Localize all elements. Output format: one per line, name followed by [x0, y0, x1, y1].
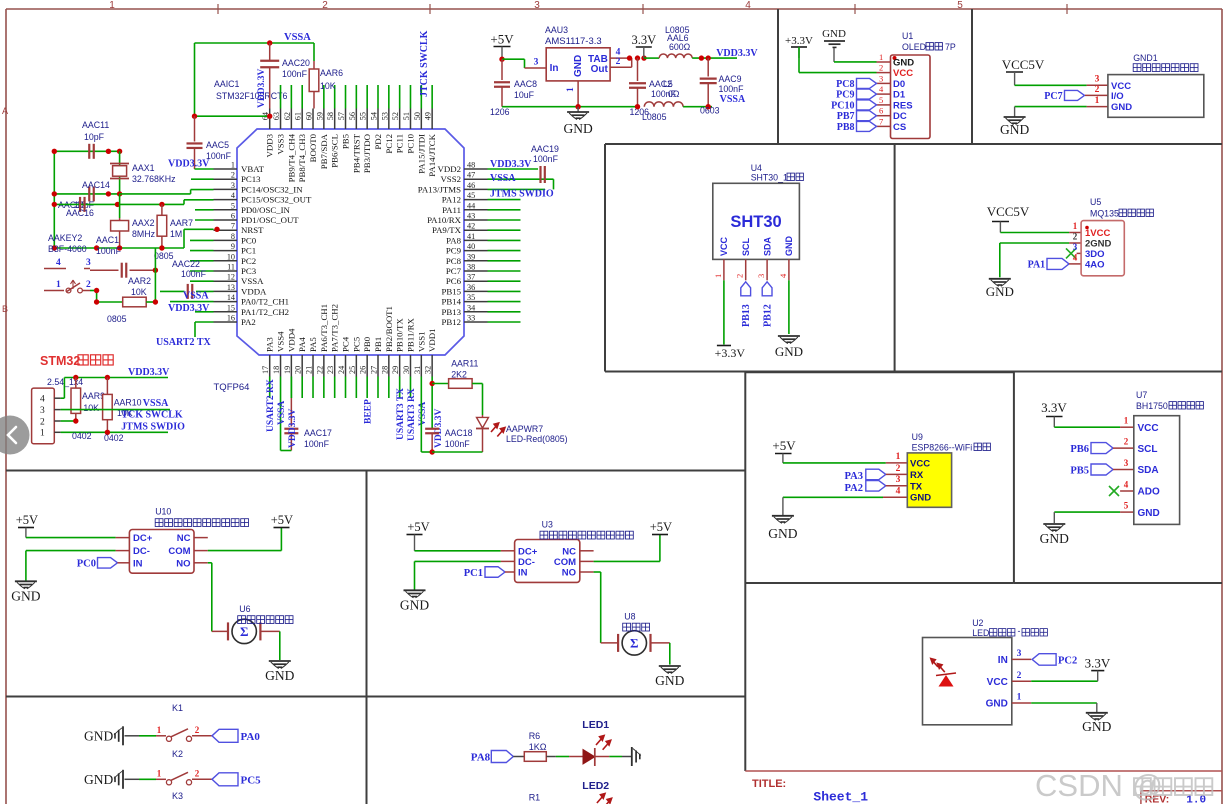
svg-text:59: 59 [315, 112, 324, 120]
svg-text:PC9: PC9 [836, 90, 854, 101]
svg-text:VCC5V: VCC5V [1002, 57, 1045, 72]
wire right pin [488, 229, 521, 231]
capacitor AAC18 100nF [425, 428, 439, 430]
svg-text:35: 35 [467, 293, 475, 302]
svg-text:VDD1: VDD1 [427, 329, 437, 352]
node junctions after coil [699, 55, 704, 60]
wire pin46 JTMS [488, 188, 546, 190]
wire top pin stub [420, 85, 422, 109]
pin 25 PC5 [355, 355, 357, 377]
pin 32 VDD1 [431, 355, 433, 377]
pin 43 PA10/RX [464, 219, 488, 221]
pin 31 VSS1 [420, 355, 422, 377]
ground GND regulator [577, 107, 579, 112]
resistor AAR7 1M [161, 204, 163, 215]
port flag PC5 [212, 773, 238, 786]
section divider horizontal y583 esp8266 bottom [745, 582, 1014, 584]
svg-text:PC4: PC4 [341, 336, 351, 352]
svg-text:1: 1 [713, 274, 723, 278]
wire resistor to led [472, 383, 482, 385]
svg-text:PB2/BOOT1: PB2/BOOT1 [384, 306, 394, 352]
svg-text:3: 3 [896, 475, 901, 485]
svg-text:VDD3.3V: VDD3.3V [716, 48, 758, 59]
svg-text:PB0: PB0 [362, 336, 372, 352]
svg-text:U7: U7 [1136, 390, 1147, 400]
svg-text:PB10/TX: PB10/TX [395, 318, 405, 352]
svg-text:3.3V: 3.3V [1041, 400, 1067, 415]
port flag PB7 [857, 111, 877, 121]
wire dl port top rail [64, 377, 168, 379]
wire pin18 VSSA loop [280, 377, 282, 451]
svg-text:TX: TX [910, 481, 923, 492]
svg-text:1VCC: 1VCC [1085, 228, 1110, 239]
svg-text:27: 27 [370, 366, 379, 374]
svg-text:3: 3 [1073, 242, 1078, 252]
pin 62 PB9/T4_CH4 [290, 109, 292, 130]
svg-text:AAC16: AAC16 [66, 208, 94, 218]
svg-text:44: 44 [467, 201, 475, 210]
svg-text:PB6: PB6 [1070, 444, 1089, 455]
svg-text:PA1/T2_CH2: PA1/T2_CH2 [241, 307, 289, 317]
wire right pin [488, 301, 521, 303]
svg-text:10K: 10K [131, 287, 147, 297]
wire cluster left vertical [53, 151, 55, 248]
svg-text:U6: U6 [239, 604, 250, 614]
wire bottom pin stub [312, 377, 314, 399]
node junction NRST [214, 227, 219, 232]
sheet border frame [6, 8, 1222, 10]
pin 12 VSSA [214, 280, 238, 282]
inductor AAL5 L0805 [644, 102, 683, 107]
label atomizer module (Chinese) [238, 616, 293, 624]
wire right pin [488, 199, 521, 201]
sensor U4 SHT30 body [713, 183, 800, 259]
pin 33 PB12 [464, 321, 488, 323]
section divider horizontal y144 [605, 143, 1222, 145]
pin 44 PA11 [464, 209, 488, 211]
wire bh1750 gnd [1054, 511, 1120, 513]
section divider horizontal esp8266 top y372 [745, 371, 1014, 373]
op-amp U1 -- MCU AAIC1 STM32F103RCT6 body [237, 129, 464, 355]
svg-text:PA7/T3_CH2: PA7/T3_CH2 [330, 304, 340, 352]
svg-text:5: 5 [231, 201, 235, 210]
pin 4 PC15/OSC32_OUT [214, 199, 238, 201]
svg-text:2: 2 [1017, 671, 1022, 681]
wire top pin stub [377, 85, 379, 109]
svg-text:AAU3: AAU3 [545, 25, 568, 35]
svg-text:Sheet_1: Sheet_1 [813, 790, 868, 804]
node pin1 marker [893, 56, 897, 60]
svg-text:AAIC1: AAIC1 [214, 79, 240, 89]
svg-text:3: 3 [1095, 75, 1100, 85]
port flag PC8 [857, 78, 877, 88]
svg-text:PC15/OSC32_OUT: PC15/OSC32_OUT [241, 195, 312, 205]
capacitor AAC2 100nF [637, 58, 639, 81]
svg-text:1: 1 [109, 0, 115, 11]
svg-text:4AO: 4AO [1085, 260, 1105, 271]
pin 45 PA12 [464, 199, 488, 201]
svg-text:L0805: L0805 [642, 112, 667, 122]
svg-text:41: 41 [467, 232, 475, 241]
port flag PC10 [857, 100, 877, 110]
watermark CSDN [1035, 768, 1212, 803]
svg-text:0805: 0805 [154, 251, 174, 261]
svg-text:SDA: SDA [1138, 465, 1159, 476]
svg-text:PA0: PA0 [241, 731, 261, 743]
svg-text:USART2 RX: USART2 RX [266, 379, 276, 432]
resistor AAR6 10K [313, 43, 315, 61]
svg-text:PC3: PC3 [241, 266, 257, 276]
svg-text:VSS2: VSS2 [440, 174, 461, 184]
wire right pin [488, 270, 521, 272]
svg-text:PD1/OSC_OUT: PD1/OSC_OUT [241, 215, 299, 225]
svg-text:4: 4 [616, 48, 621, 58]
svg-text:0402: 0402 [72, 431, 92, 441]
svg-text:GND: GND [1040, 531, 1069, 546]
svg-text:AAR6: AAR6 [320, 68, 343, 78]
node junction pin32 branch [429, 381, 434, 386]
svg-text:+3.3V: +3.3V [715, 346, 746, 360]
svg-text:4: 4 [56, 258, 61, 268]
pin 64 VDD3 [269, 109, 271, 130]
svg-text:NRST: NRST [241, 225, 264, 235]
inductor AAL6 600R L0805 [644, 57, 659, 59]
pin 2 Out wire [610, 66, 632, 68]
svg-text:K3: K3 [172, 791, 183, 801]
wire bottom pin stub [420, 377, 422, 399]
svg-text:19: 19 [283, 366, 292, 374]
svg-text:51: 51 [402, 112, 411, 120]
capacitor AAC8 10uF [501, 59, 503, 80]
pin 13 VDDA [214, 290, 238, 292]
wire +3.3V to VCC [798, 47, 800, 73]
svg-text:GND: GND [1111, 102, 1132, 113]
wire u3 dc- [415, 560, 501, 562]
no-connect cross pin3 [1077, 252, 1082, 254]
svg-text:VDD3.3V: VDD3.3V [288, 409, 298, 448]
svg-text:NO: NO [176, 558, 190, 569]
node junction cap2 bottom [635, 104, 640, 109]
svg-text:B: B [2, 304, 8, 314]
wire conn pin3 TCK [54, 409, 60, 411]
svg-text:STM32F103RCT6: STM32F103RCT6 [216, 91, 287, 101]
svg-text:1: 1 [231, 161, 235, 170]
svg-text:PC1: PC1 [464, 568, 483, 579]
svg-text:53: 53 [380, 112, 389, 120]
svg-text:+5V: +5V [407, 520, 429, 534]
svg-text:10K: 10K [83, 403, 99, 413]
svg-text:45: 45 [467, 191, 475, 200]
capacitor AAC11 10pF [88, 144, 90, 159]
svg-text:3.3V: 3.3V [1085, 656, 1111, 671]
svg-text:VCC: VCC [910, 459, 930, 470]
svg-text:Σ: Σ [630, 635, 639, 650]
ground GND u10 [15, 580, 37, 582]
svg-text:USART3 TX: USART3 TX [396, 388, 406, 440]
svg-text:VSSA: VSSA [183, 291, 209, 302]
svg-text:AAC5: AAC5 [206, 140, 229, 150]
svg-text:2: 2 [1095, 85, 1100, 95]
svg-text:DC-: DC- [518, 557, 535, 568]
svg-text:PD2: PD2 [373, 134, 383, 150]
power flag +3.3V sht30 [717, 345, 731, 347]
capacitor AAC1 100nF [90, 269, 119, 271]
svg-text:17: 17 [261, 366, 270, 374]
pin 34 PB13 [464, 311, 488, 313]
label relay fan control (Chinese) [540, 531, 633, 539]
svg-text:COM: COM [168, 546, 190, 557]
svg-text:5: 5 [1124, 501, 1129, 511]
wire pin1 row [195, 168, 214, 170]
svg-text:100nF: 100nF [304, 439, 330, 449]
svg-text:4: 4 [40, 395, 45, 405]
svg-text:+5V: +5V [16, 513, 38, 527]
svg-text:A: A [2, 106, 8, 116]
svg-text:10K: 10K [320, 81, 336, 91]
svg-text:R1: R1 [529, 793, 541, 803]
svg-text:VCC: VCC [1138, 423, 1159, 434]
svg-text:57: 57 [337, 112, 346, 120]
svg-text:PA8: PA8 [471, 752, 491, 764]
svg-text:PC14/OSC32_IN: PC14/OSC32_IN [241, 184, 303, 194]
svg-text:VSSA: VSSA [277, 401, 287, 425]
wire vssa bottom run [195, 115, 270, 117]
wire bottom pin stub [345, 377, 347, 399]
svg-text:2: 2 [322, 0, 328, 11]
svg-text:NO: NO [562, 568, 576, 579]
svg-text:PA2: PA2 [845, 483, 863, 494]
svg-text:0805: 0805 [107, 314, 127, 324]
wire bottom pin stub [409, 377, 411, 399]
node junctions row1 [52, 149, 57, 154]
svg-text:B3F-4060: B3F-4060 [48, 244, 87, 254]
capacitor AAC14 10pF [88, 186, 90, 201]
net VSSA rail wire [195, 42, 315, 44]
svg-text:PA4: PA4 [297, 337, 307, 352]
wire right pin [488, 321, 521, 323]
wire top pin stub [334, 85, 336, 109]
port flag PC9 [857, 89, 877, 99]
pin 7 NRST [214, 229, 238, 231]
svg-text:33: 33 [467, 314, 475, 323]
LED symbol inside U2 [931, 659, 938, 668]
wire bh1750 vcc [1054, 426, 1120, 428]
wire esp vcc [783, 462, 886, 464]
pin 11 PC3 [214, 270, 238, 272]
svg-text:PB14: PB14 [441, 297, 461, 307]
svg-text:BEEP: BEEP [364, 399, 374, 424]
wire conn pin2 [54, 420, 60, 422]
svg-text:PA3: PA3 [845, 471, 863, 482]
svg-text:AAC18: AAC18 [445, 428, 473, 438]
resistor R6 1K [524, 752, 546, 762]
svg-text:U2: U2 [972, 618, 983, 628]
section divider vertical x972 top [971, 9, 973, 144]
svg-text:PA2: PA2 [241, 317, 256, 327]
svg-text:37: 37 [467, 273, 475, 282]
pin 22 PA6/T3_CH1 [323, 355, 325, 377]
svg-text:DC+: DC+ [133, 533, 153, 544]
svg-text:+5V: +5V [490, 32, 514, 47]
svg-text:PA0/T2_CH1: PA0/T2_CH1 [241, 297, 289, 307]
power flag +3.3V oled [791, 46, 807, 48]
wire bottom pin stub [388, 377, 390, 399]
sensor U5 MQ135 body [1081, 221, 1124, 276]
svg-text:4: 4 [1124, 479, 1129, 489]
svg-text:AAPWR7: AAPWR7 [506, 424, 543, 434]
svg-text:JTCK SWCLK: JTCK SWCLK [419, 30, 430, 97]
svg-text:VDD4: VDD4 [286, 328, 296, 352]
svg-text:AAKEY2: AAKEY2 [48, 233, 82, 243]
svg-text:PA14/JTCK: PA14/JTCK [427, 133, 437, 176]
crystal AAX2 8MHz [119, 194, 121, 218]
svg-text:9: 9 [231, 242, 235, 251]
svg-text:AAC1: AAC1 [96, 235, 119, 245]
wire right pin [488, 290, 521, 292]
no-connect cross ADO [1120, 490, 1134, 492]
svg-text:1: 1 [40, 429, 45, 439]
svg-text:100nF: 100nF [181, 269, 207, 279]
svg-text:PC10: PC10 [405, 133, 415, 153]
wire row C y204 [54, 203, 184, 205]
svg-text:ESP8266--WiFi: ESP8266--WiFi [912, 443, 973, 453]
svg-text:PC2: PC2 [1058, 655, 1077, 666]
svg-text:AAC20: AAC20 [282, 58, 310, 68]
svg-text:TITLE:: TITLE: [752, 778, 786, 790]
wire u10 dc- [26, 550, 116, 552]
wire row14 VDDA [170, 301, 214, 303]
connector U1 OLED body [891, 55, 931, 139]
capacitor AAC5 100nF [192, 114, 197, 119]
svg-text:1KΩ: 1KΩ [529, 742, 547, 752]
svg-text:2: 2 [195, 725, 200, 735]
svg-text:U4: U4 [751, 163, 762, 173]
pin 15 PA1/T2_CH2 [214, 311, 238, 313]
wire right pin [488, 280, 521, 282]
wire pin48 VDD3.3V [488, 168, 539, 170]
wire r6 to led1 [546, 756, 556, 758]
svg-text:2: 2 [879, 63, 883, 73]
wire motor right to gnd [261, 630, 280, 632]
pin 63 VSS3 [280, 109, 282, 130]
svg-text:I/O: I/O [1111, 91, 1124, 102]
port flag PC2 [1032, 654, 1056, 666]
svg-text:PC10: PC10 [831, 100, 854, 111]
svg-text:PB12: PB12 [441, 317, 461, 327]
svg-text:36: 36 [467, 283, 475, 292]
svg-text:RES: RES [893, 100, 913, 111]
wire bottom pin stub [301, 377, 303, 399]
wire right pin [488, 250, 521, 252]
svg-text:STM32: STM32 [40, 354, 80, 368]
wire u10 dc+ [26, 537, 116, 539]
wire right pin [488, 311, 521, 313]
svg-text:VSS3: VSS3 [276, 133, 286, 154]
svg-text:PC9: PC9 [446, 246, 462, 256]
svg-text:22: 22 [315, 366, 324, 374]
svg-text:6: 6 [879, 106, 883, 116]
svg-text:50: 50 [413, 112, 422, 120]
svg-text:PC0: PC0 [77, 559, 96, 570]
svg-text:IN: IN [133, 558, 143, 569]
svg-text:1: 1 [566, 87, 576, 92]
svg-text:40: 40 [467, 242, 475, 251]
section divider vertical x1013 [1013, 372, 1015, 583]
svg-text:PB15: PB15 [441, 286, 461, 296]
svg-text:TQFP64: TQFP64 [214, 382, 250, 393]
wire bottom pin stub [290, 377, 292, 399]
svg-text:VBAT: VBAT [241, 164, 265, 174]
pin 35 PB14 [464, 301, 488, 303]
svg-text:COM: COM [554, 557, 576, 568]
pin 19 VDD4 [290, 355, 292, 377]
svg-text:AAC8: AAC8 [514, 79, 537, 89]
svg-text:TCK SWCLK: TCK SWCLK [121, 410, 183, 421]
node junction vssa/cap [267, 40, 272, 45]
pin 61 PB8/T4_CH3 [301, 109, 303, 130]
svg-text:K2: K2 [172, 749, 183, 759]
wire vssa left drop [194, 43, 196, 116]
svg-text:55: 55 [359, 112, 368, 120]
svg-text:PC2: PC2 [241, 256, 256, 266]
svg-text:GND: GND [1082, 719, 1111, 734]
svg-text:CS: CS [893, 122, 906, 133]
svg-text:GND: GND [11, 588, 40, 603]
wire top pin stub [345, 85, 347, 109]
svg-text:4: 4 [1073, 253, 1078, 263]
wire top pin stub [355, 85, 357, 109]
svg-text:25: 25 [348, 366, 357, 374]
svg-text:VDD3: VDD3 [265, 133, 275, 157]
svg-text:AAR2: AAR2 [128, 276, 151, 286]
pin 49 PA14/JTCK [431, 109, 433, 130]
pin 27 PB1 [377, 355, 379, 377]
wire bottom pin stub [366, 377, 368, 399]
pin 1 GND U1 [877, 61, 891, 63]
svg-text:+3.3V: +3.3V [785, 35, 813, 47]
wire left pin stubs rows 2,5,6 [191, 178, 214, 180]
pin 41 PA8 [464, 239, 488, 241]
svg-text:PC8: PC8 [446, 256, 462, 266]
pin 54 PD2 [377, 109, 379, 130]
svg-text:3: 3 [1017, 649, 1022, 659]
wire bottom pin stub [323, 377, 325, 399]
pin 58 PB6/SCL [334, 109, 336, 130]
svg-text:PC8: PC8 [836, 79, 854, 90]
svg-text:PA5: PA5 [308, 337, 318, 352]
ground GND buzzer [1015, 106, 1087, 108]
svg-text:13: 13 [227, 283, 235, 292]
wire row16 PA2 usart [195, 321, 214, 323]
wire left pin stubs rows 8-12 [190, 239, 214, 241]
svg-text:SCL: SCL [741, 237, 751, 256]
svg-text:10uF: 10uF [514, 90, 535, 100]
pin 4 D1 U1 [877, 93, 891, 95]
svg-text:5: 5 [879, 95, 883, 105]
svg-text:PA6/T3_CH1: PA6/T3_CH1 [319, 304, 329, 352]
svg-text:21: 21 [305, 366, 314, 374]
wire row D y248 [54, 247, 184, 249]
node junction AAC1 right [153, 268, 158, 273]
svg-text:100nF: 100nF [445, 439, 471, 449]
pin 42 PA9/TX [464, 229, 488, 231]
svg-text:3: 3 [534, 0, 540, 11]
svg-text:PC11: PC11 [395, 134, 405, 153]
pin 5 RES U1 [877, 104, 891, 106]
label exhaust fan (Chinese) [623, 623, 650, 631]
connector GND1 buzzer body [1108, 75, 1204, 118]
svg-text:PA12: PA12 [442, 195, 461, 205]
